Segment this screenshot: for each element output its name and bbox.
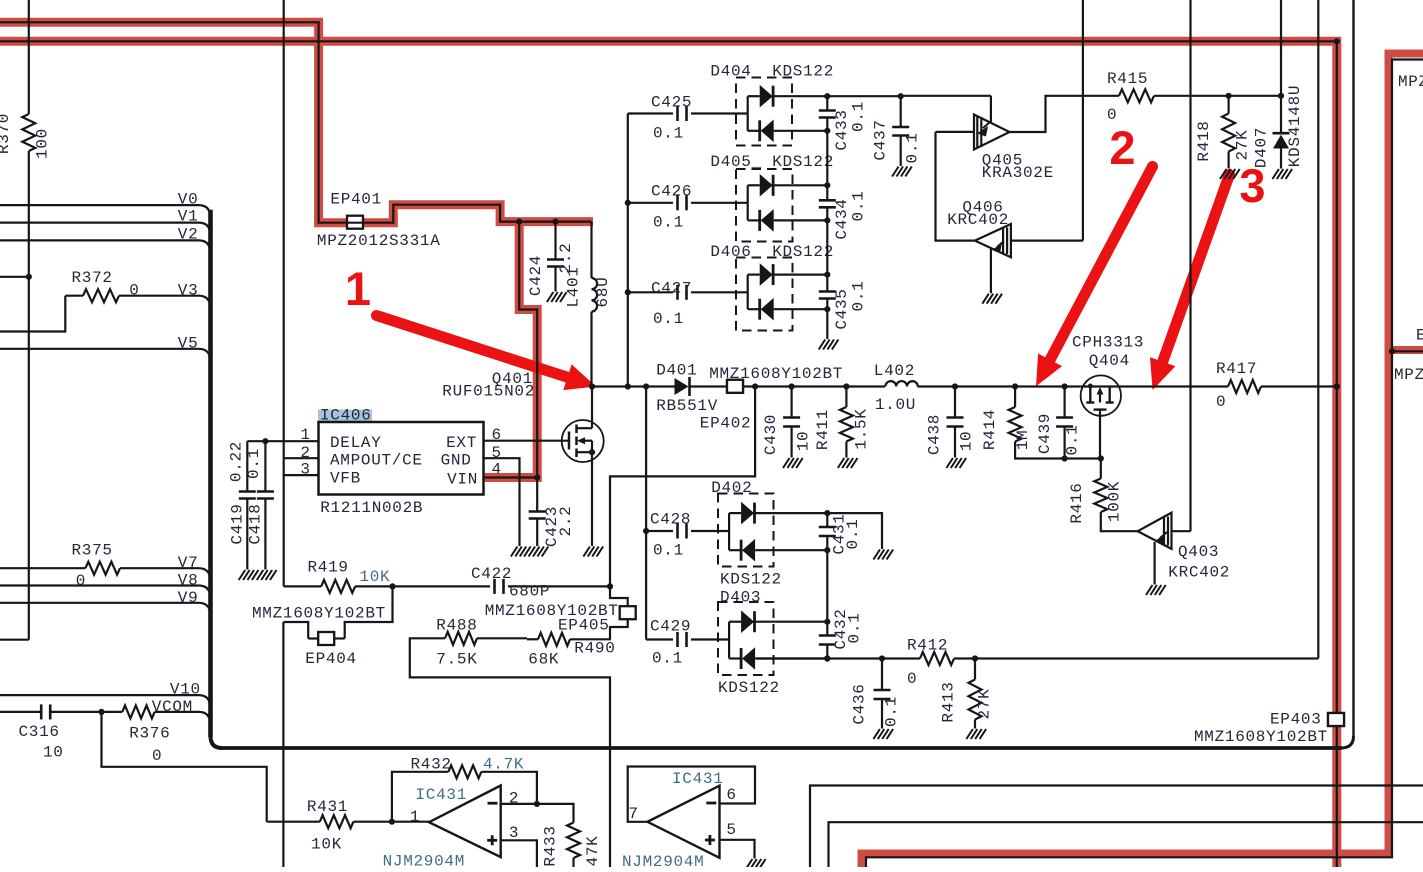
svg-text:V10: V10 xyxy=(170,681,201,699)
svg-text:R415: R415 xyxy=(1107,70,1148,88)
svg-text:AMPOUT/CE: AMPOUT/CE xyxy=(330,452,423,470)
svg-text:R431: R431 xyxy=(307,798,348,816)
svg-text:R413: R413 xyxy=(940,681,958,722)
svg-text:EP404: EP404 xyxy=(305,650,357,668)
svg-text:GND: GND xyxy=(441,452,472,470)
svg-text:1.5K: 1.5K xyxy=(853,408,871,449)
svg-text:MPZ: MPZ xyxy=(1394,366,1423,384)
svg-text:0.1: 0.1 xyxy=(904,133,922,164)
svg-text:Q404: Q404 xyxy=(1089,352,1130,370)
svg-text:10: 10 xyxy=(795,431,813,452)
svg-text:C429: C429 xyxy=(650,618,691,636)
svg-text:KDS122: KDS122 xyxy=(718,679,780,697)
svg-text:MPZ: MPZ xyxy=(1398,73,1423,91)
svg-text:R418: R418 xyxy=(1195,120,1213,161)
svg-text:0.1: 0.1 xyxy=(850,281,868,312)
svg-text:RB551V: RB551V xyxy=(656,397,718,415)
svg-text:68K: 68K xyxy=(528,651,559,669)
svg-text:2.2: 2.2 xyxy=(557,506,575,537)
svg-text:R432: R432 xyxy=(411,756,452,774)
svg-text:V9: V9 xyxy=(178,589,199,607)
svg-text:R419: R419 xyxy=(308,559,349,577)
svg-text:L402: L402 xyxy=(874,362,915,380)
svg-text:1.0U: 1.0U xyxy=(875,396,916,414)
svg-text:L401: L401 xyxy=(565,266,583,307)
svg-text:Q403: Q403 xyxy=(1178,543,1219,561)
svg-text:EXT: EXT xyxy=(446,434,477,452)
svg-text:0: 0 xyxy=(152,747,162,765)
svg-text:2: 2 xyxy=(509,789,519,807)
svg-text:V7: V7 xyxy=(178,554,199,572)
svg-text:IC431: IC431 xyxy=(416,786,468,804)
svg-text:0.1: 0.1 xyxy=(1064,425,1082,456)
svg-text:IC431: IC431 xyxy=(672,770,724,788)
svg-text:VFB: VFB xyxy=(330,469,361,487)
svg-text:V2: V2 xyxy=(178,226,199,244)
svg-text:0: 0 xyxy=(1107,106,1117,124)
svg-text:R414: R414 xyxy=(981,409,999,450)
svg-text:V8: V8 xyxy=(178,571,199,589)
svg-text:D405_ KDS122: D405_ KDS122 xyxy=(710,153,834,171)
svg-text:D401: D401 xyxy=(656,361,697,379)
svg-text:KDS122: KDS122 xyxy=(720,571,782,589)
svg-text:VIN: VIN xyxy=(447,470,478,488)
svg-text:0.1: 0.1 xyxy=(245,448,263,479)
svg-text:D406_ KDS122: D406_ KDS122 xyxy=(710,243,834,261)
svg-text:RUF015N02: RUF015N02 xyxy=(442,383,535,401)
svg-text:C422: C422 xyxy=(471,565,512,583)
svg-text:0.1: 0.1 xyxy=(652,650,683,668)
svg-text:R375: R375 xyxy=(72,541,113,559)
svg-text:VCOM: VCOM xyxy=(152,698,193,716)
svg-text:KDS4148U: KDS4148U xyxy=(1286,85,1304,167)
svg-text:V1: V1 xyxy=(178,208,199,226)
svg-text:1: 1 xyxy=(345,262,371,315)
svg-text:MMZ1608Y102BT: MMZ1608Y102BT xyxy=(1194,728,1328,746)
svg-text:680P: 680P xyxy=(509,583,550,601)
svg-text:R376: R376 xyxy=(129,724,170,742)
svg-text:1M: 1M xyxy=(1014,430,1032,451)
svg-text:10: 10 xyxy=(43,744,64,762)
svg-text:0.1: 0.1 xyxy=(653,542,684,560)
svg-text:7.5K: 7.5K xyxy=(436,651,477,669)
svg-text:NJM2904M: NJM2904M xyxy=(383,853,465,867)
svg-text:MPZ2012S331A: MPZ2012S331A xyxy=(317,232,441,250)
svg-text:D407: D407 xyxy=(1253,127,1271,168)
svg-text:C426: C426 xyxy=(651,183,692,201)
svg-text:KRA302E: KRA302E xyxy=(982,164,1054,182)
svg-text:NJM2904M: NJM2904M xyxy=(622,853,704,867)
svg-text:EP405: EP405 xyxy=(558,617,610,635)
svg-text:C428: C428 xyxy=(650,511,691,529)
svg-text:V3: V3 xyxy=(178,282,199,300)
svg-text:MMZ1608Y102BT: MMZ1608Y102BT xyxy=(252,605,386,623)
svg-text:10K: 10K xyxy=(359,568,390,586)
svg-text:10: 10 xyxy=(958,431,976,452)
svg-text:27K: 27K xyxy=(1234,130,1252,161)
svg-text:1: 1 xyxy=(410,808,420,826)
svg-text:0.22: 0.22 xyxy=(228,441,246,482)
svg-text:CPH3313: CPH3313 xyxy=(1072,333,1144,351)
svg-text:0.1: 0.1 xyxy=(850,191,868,222)
svg-text:R433: R433 xyxy=(542,825,560,866)
svg-text:R370: R370 xyxy=(0,113,13,154)
svg-text:C438: C438 xyxy=(926,414,944,455)
svg-text:0.1: 0.1 xyxy=(844,519,862,550)
svg-text:3: 3 xyxy=(509,824,519,842)
svg-text:V0: V0 xyxy=(178,190,199,208)
svg-text:R411: R411 xyxy=(814,409,832,450)
svg-text:C424: C424 xyxy=(527,255,545,296)
svg-text:KRC402: KRC402 xyxy=(947,211,1009,229)
svg-text:100: 100 xyxy=(34,128,52,159)
svg-text:R490: R490 xyxy=(574,640,615,658)
svg-text:0.1: 0.1 xyxy=(850,101,868,132)
svg-text:KRC402: KRC402 xyxy=(1168,563,1230,581)
svg-text:6: 6 xyxy=(726,786,736,804)
svg-text:0.1: 0.1 xyxy=(653,310,684,328)
svg-text:R488: R488 xyxy=(436,617,477,635)
svg-text:0: 0 xyxy=(76,572,86,590)
svg-text:4.7K: 4.7K xyxy=(483,756,524,774)
svg-text:4: 4 xyxy=(492,461,502,479)
svg-text:R372: R372 xyxy=(72,269,113,287)
svg-text:E: E xyxy=(1416,327,1423,345)
svg-text:68U: 68U xyxy=(594,277,612,308)
svg-text:27K: 27K xyxy=(976,689,994,720)
svg-text:0: 0 xyxy=(129,282,139,300)
svg-text:47K: 47K xyxy=(584,836,602,867)
svg-text:5: 5 xyxy=(726,821,736,839)
svg-text:DELAY: DELAY xyxy=(330,434,382,452)
svg-text:R1211N002B: R1211N002B xyxy=(320,499,423,517)
svg-text:IC406: IC406 xyxy=(320,407,372,425)
svg-text:7: 7 xyxy=(628,805,638,823)
svg-text:0.1: 0.1 xyxy=(653,214,684,232)
svg-text:0.1: 0.1 xyxy=(883,696,901,727)
svg-text:D403: D403 xyxy=(720,589,761,607)
svg-text:C436: C436 xyxy=(851,683,869,724)
svg-text:R412: R412 xyxy=(907,637,948,655)
svg-text:C439: C439 xyxy=(1036,413,1054,454)
svg-text:2: 2 xyxy=(1109,121,1135,174)
svg-text:C427: C427 xyxy=(651,280,692,298)
svg-text:D404_ KDS122: D404_ KDS122 xyxy=(710,62,834,80)
svg-text:D402: D402 xyxy=(711,479,752,497)
svg-text:C418: C418 xyxy=(247,503,265,544)
svg-text:V5: V5 xyxy=(178,335,199,353)
svg-text:0: 0 xyxy=(907,670,917,688)
svg-text:10K: 10K xyxy=(311,836,342,854)
svg-text:C419: C419 xyxy=(229,503,247,544)
svg-text:EP402: EP402 xyxy=(700,414,752,432)
svg-text:C433: C433 xyxy=(833,109,851,150)
svg-text:EP403: EP403 xyxy=(1270,711,1322,729)
svg-text:R416: R416 xyxy=(1068,482,1086,523)
svg-text:C425: C425 xyxy=(651,94,692,112)
svg-text:100K: 100K xyxy=(1106,481,1124,522)
svg-text:EP401: EP401 xyxy=(330,191,382,209)
svg-text:0.1: 0.1 xyxy=(846,613,864,644)
svg-text:C316: C316 xyxy=(19,723,60,741)
svg-text:0: 0 xyxy=(1216,393,1226,411)
svg-text:C434: C434 xyxy=(833,198,851,239)
svg-text:C437: C437 xyxy=(872,119,890,160)
svg-text:R417: R417 xyxy=(1216,360,1257,378)
svg-text:0.1: 0.1 xyxy=(653,125,684,143)
svg-text:C435: C435 xyxy=(833,288,851,329)
svg-text:C430: C430 xyxy=(762,414,780,455)
